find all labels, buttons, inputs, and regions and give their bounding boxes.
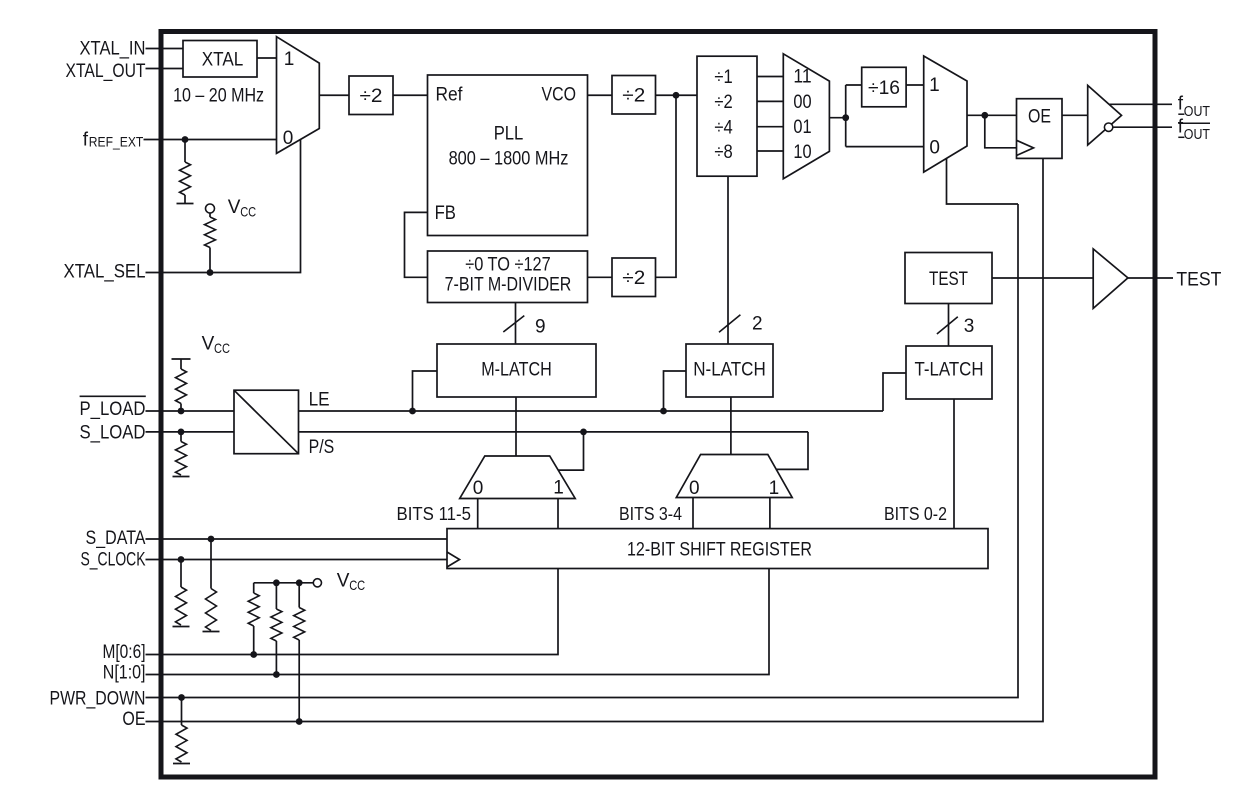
node B mux U3 output junction [842, 114, 849, 121]
svg-text:XTAL_SEL: XTAL_SEL [64, 261, 146, 282]
resistor R6 S_DATA pulldown [210, 539, 212, 589]
svg-text:0: 0 [929, 137, 940, 158]
wire TEST buffer to pin [1128, 277, 1173, 279]
wire LE up to M-LATCH [413, 371, 438, 411]
wire S_CLOCK to shift register clock [146, 559, 448, 561]
node rail to OE pullup [296, 579, 303, 586]
clock input wedge of shift register [447, 552, 460, 567]
output prescaler divider block [697, 56, 757, 176]
node C OE flip-flop input junction [981, 112, 988, 119]
svg-text:TEST: TEST [1176, 269, 1221, 290]
wire M[0:6] to shift register parallel input [146, 569, 559, 655]
wire TEST block to TEST buffer [992, 277, 1093, 279]
svg-text:÷2: ÷2 [360, 86, 383, 107]
wire P/S select to M-mux [558, 432, 583, 470]
pin P_LOAD with overline [80, 395, 146, 397]
wire PLL VCO output to divider /2 B [588, 94, 613, 96]
svg-text:÷2: ÷2 [714, 92, 732, 113]
wire node C to OE flip-flop clock [985, 115, 1017, 148]
wire prescaler tap /2 to mux U3 [757, 100, 783, 102]
wire N-mux output up to N-LATCH [730, 397, 732, 455]
wire P_LOAD into load control [146, 410, 235, 412]
svg-text:BITS 0-2: BITS 0-2 [884, 504, 947, 524]
resistor R10 PWR_DOWN pulldown [181, 698, 183, 726]
bus width slash 2 [719, 315, 740, 333]
svg-text:01: 01 [793, 117, 811, 138]
node PWR_DOWN pulldown junction [178, 694, 185, 701]
resistor R3 P_LOAD pullup [180, 359, 182, 369]
wire P/S select to N-mux [776, 432, 808, 470]
N-LATCH block [686, 344, 773, 397]
wire prescaler tap /4 to mux U3 [757, 126, 783, 128]
bus M-divider to M-LATCH 9 bits [515, 303, 517, 345]
crystal XTAL box [183, 41, 257, 78]
svg-text:S_CLOCK: S_CLOCK [81, 550, 146, 571]
svg-text:1: 1 [553, 478, 564, 499]
svg-text:10 – 20 MHz: 10 – 20 MHz [173, 86, 264, 107]
chip boundary border [161, 32, 1155, 778]
wire N-mux input 1 stub [769, 498, 771, 529]
wire node B to divider /16 [846, 84, 862, 86]
bus prescaler to N-LATCH 2 bits [727, 176, 729, 344]
svg-text:÷4: ÷4 [714, 117, 733, 138]
resistor R1 fREF_EXT pulldown [184, 140, 186, 163]
load control block with diagonal [234, 390, 299, 454]
pin fOUT-bar with overline [1178, 122, 1210, 124]
wire fOUT complementary output [1113, 126, 1172, 128]
wire mux U4 output to OE flip-flop [967, 114, 1017, 116]
wire XTAL_SEL to mux U1 select [146, 140, 301, 273]
svg-text:÷16: ÷16 [868, 78, 900, 99]
svg-text:OE: OE [1028, 106, 1051, 127]
svg-text:÷1: ÷1 [714, 67, 732, 88]
divider /2 B [612, 76, 656, 115]
svg-text:OUT: OUT [1184, 126, 1210, 143]
svg-text:LE: LE [309, 389, 330, 410]
wire N-mux input 0 stub [692, 498, 694, 529]
wire mux U3 output [829, 117, 845, 119]
svg-text:S_LOAD: S_LOAD [80, 423, 146, 444]
output buffer U6 [1088, 85, 1122, 145]
bus width slash 9 [503, 316, 524, 332]
TEST block [905, 253, 992, 304]
node S_CLOCK junction [178, 556, 185, 563]
divider /16 [862, 67, 906, 107]
wire U5 output to output buffer [1062, 114, 1088, 116]
12-bit shift register block [447, 529, 988, 569]
T-LATCH block [906, 346, 992, 399]
svg-text:N-LATCH: N-LATCH [693, 360, 766, 381]
wire M-mux output up to M-LATCH [515, 397, 517, 456]
svg-text:9: 9 [535, 317, 546, 338]
mux U9 N parallel/serial select [676, 455, 792, 498]
wire node B branch [845, 85, 847, 147]
wire XTAL_IN to XTAL box [146, 48, 184, 50]
wire LE line [299, 410, 884, 412]
node P_LOAD junction [178, 408, 185, 415]
svg-text:BITS 3-4: BITS 3-4 [619, 504, 682, 524]
svg-text:S_DATA: S_DATA [86, 528, 146, 549]
svg-text:T-LATCH: T-LATCH [915, 360, 984, 381]
wire N[1:0] to shift register parallel input [146, 569, 770, 675]
wire mux U4 select from PWR_DOWN [947, 158, 1019, 204]
wire LE up to T-LATCH [883, 373, 906, 411]
svg-text:CC: CC [214, 340, 230, 356]
svg-text:P_LOAD: P_LOAD [80, 399, 146, 420]
svg-text:10: 10 [793, 142, 811, 163]
resistor R8 N pullup [275, 583, 277, 609]
wire fOUT true output [1110, 103, 1173, 105]
svg-text:7-BIT M-DIVIDER: 7-BIT M-DIVIDER [445, 275, 572, 296]
svg-text:2: 2 [752, 314, 763, 335]
svg-text:V: V [202, 334, 215, 355]
svg-text:OE: OE [122, 709, 145, 730]
resistor R5 S_CLOCK pulldown [180, 560, 182, 588]
mux U4 divide-by-16 select [924, 56, 967, 172]
svg-text:÷8: ÷8 [714, 142, 732, 163]
wire /2 C to M-divider [588, 276, 613, 278]
wire node B bypass to mux U4 input 0 [846, 146, 924, 148]
svg-text:0: 0 [283, 128, 294, 149]
wire M-divider to PLL FB [405, 212, 428, 277]
mux U1 reference select [277, 37, 320, 154]
bus TEST to T-LATCH 3 bits [948, 304, 950, 347]
svg-text:BITS 11-5: BITS 11-5 [397, 504, 472, 524]
svg-text:V: V [228, 197, 241, 218]
svg-text:÷0 TO ÷127: ÷0 TO ÷127 [465, 255, 551, 276]
svg-text:÷2: ÷2 [622, 86, 645, 107]
svg-text:CC: CC [240, 204, 256, 220]
wire XTAL box to mux U1 input 1 [257, 57, 277, 59]
svg-text:M-LATCH: M-LATCH [481, 360, 552, 381]
wire P/S line [299, 431, 809, 433]
node A VCO/2 junction [673, 92, 680, 99]
M-divider block [428, 251, 588, 303]
svg-text:00: 00 [793, 92, 811, 113]
svg-text:M[0:6]: M[0:6] [103, 642, 146, 663]
wire /16 to mux U4 input 1 [906, 84, 924, 86]
wire /2 B output to prescaler [656, 94, 698, 96]
VCC pullup terminal for XTAL_SEL [206, 204, 215, 213]
node LE to M-LATCH junction [409, 408, 416, 415]
node rail to N pullup [273, 579, 280, 586]
node S_DATA junction [208, 536, 215, 543]
svg-text:3: 3 [964, 316, 975, 337]
node LE to N-LATCH junction [660, 408, 667, 415]
wire mux U1 output to divider /2 A [319, 94, 349, 96]
svg-text:1: 1 [769, 478, 780, 499]
wire OE to flip-flop U5 select route [146, 158, 1044, 721]
VCC rail for parallel input pullups [254, 582, 314, 584]
svg-text:PLL: PLL [494, 124, 524, 145]
node N pullup junction [273, 671, 280, 678]
svg-text:0: 0 [689, 478, 700, 499]
OE output-enable flip-flop U5 [1017, 99, 1063, 159]
mux U8 M parallel/serial select [460, 456, 576, 499]
svg-text:CC: CC [349, 577, 365, 593]
svg-text:XTAL_IN: XTAL_IN [80, 38, 146, 59]
mux U3 N-select [783, 54, 829, 179]
svg-text:12-BIT SHIFT REGISTER: 12-BIT SHIFT REGISTER [627, 539, 812, 560]
bus width slash 3 [937, 317, 958, 334]
svg-text:Ref: Ref [436, 85, 464, 106]
wire fREF_EXT to mux U1 input 0 [144, 139, 277, 141]
svg-text:1: 1 [284, 49, 295, 70]
wire LE up to N-LATCH [664, 371, 687, 411]
svg-text:V: V [337, 571, 350, 592]
svg-text:P/S: P/S [309, 437, 335, 458]
resistor R7 M pullup [253, 583, 255, 593]
wire M-mux input 1 stub [557, 499, 559, 529]
VCC open terminal [313, 579, 321, 587]
clock input wedge of U5 [1017, 140, 1034, 155]
svg-text:÷2: ÷2 [622, 268, 645, 289]
svg-text:XTAL_OUT: XTAL_OUT [66, 61, 146, 82]
wire S_DATA to shift register [146, 538, 448, 540]
svg-text:800 – 1800 MHz: 800 – 1800 MHz [449, 149, 569, 170]
node M pullup junction [250, 651, 257, 658]
node XTAL_SEL junction [207, 269, 214, 276]
resistor R9 OE pullup [298, 583, 300, 608]
VCC T-bar terminal above P_LOAD [172, 358, 191, 360]
wire /2 A to PLL Ref [393, 94, 428, 96]
wire prescaler tap /8 to mux U3 [757, 150, 783, 152]
svg-text:PWR_DOWN: PWR_DOWN [50, 688, 146, 709]
M-LATCH block [437, 344, 596, 397]
divider /2 C [612, 258, 656, 297]
svg-text:1: 1 [929, 75, 940, 96]
divider /2 A [349, 76, 393, 115]
svg-text:REF_EXT: REF_EXT [89, 134, 144, 150]
node P/S to M-mux junction [580, 429, 587, 436]
svg-text:0: 0 [473, 478, 484, 499]
node OE pullup junction [296, 718, 303, 725]
svg-text:FB: FB [435, 203, 456, 224]
wire XTAL_OUT to XTAL box [146, 68, 184, 70]
TEST buffer U7 [1093, 249, 1128, 309]
resistor R2 XTAL_SEL pullup [209, 213, 211, 217]
wire T-LATCH serial input [953, 399, 955, 529]
wire prescaler tap /1 to mux U3 [757, 76, 783, 78]
resistor R4 S_LOAD pulldown [180, 432, 182, 442]
wire PWR_DOWN to mux U4 select route [146, 204, 1019, 698]
node fREF_EXT junction [182, 136, 189, 143]
svg-text:11: 11 [793, 67, 811, 88]
svg-text:N[1:0]: N[1:0] [103, 663, 146, 684]
node S_LOAD junction [178, 429, 185, 436]
wire S_LOAD into load control [146, 431, 235, 433]
svg-text:TEST: TEST [929, 269, 968, 290]
svg-text:XTAL: XTAL [202, 50, 244, 71]
wire M-mux input 0 stub [477, 499, 479, 529]
wire node A down to divider /2 C [656, 95, 677, 277]
svg-text:OUT: OUT [1184, 103, 1210, 120]
PLL block U2 [428, 75, 588, 236]
svg-text:VCO: VCO [542, 85, 577, 106]
inversion bubble on complementary output [1104, 123, 1112, 131]
